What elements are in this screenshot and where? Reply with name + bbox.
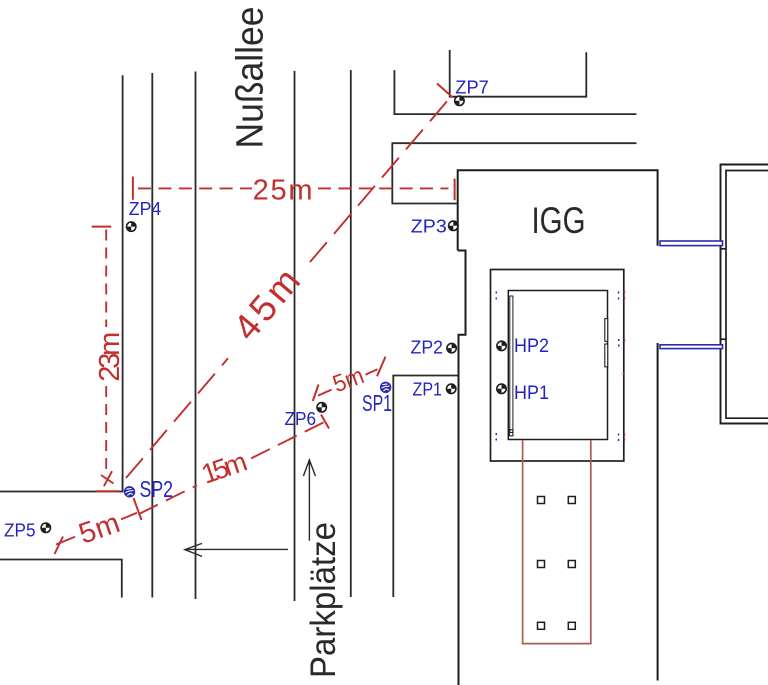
svg-text:ZP1: ZP1 bbox=[413, 378, 443, 399]
wall strip east upper bbox=[605, 319, 608, 342]
dimension 23m dashed line bbox=[105, 230, 107, 470]
arrow north bbox=[303, 460, 315, 541]
street line east mid bbox=[391, 143, 393, 204]
dimension 5m SP2-ZP5 dashed line bbox=[56, 513, 137, 545]
street line west 3 bbox=[195, 72, 197, 600]
wall strip west bbox=[510, 296, 513, 433]
svg-text:ZP6: ZP6 bbox=[285, 408, 317, 429]
point ZP7 bbox=[455, 96, 464, 105]
east building outer wall bbox=[721, 165, 768, 424]
svg-text:ZP5: ZP5 bbox=[4, 519, 36, 540]
east building opening rung 1 bbox=[721, 248, 727, 250]
dimension 5m tick at SP1 bbox=[377, 357, 386, 377]
svg-text:25m: 25m bbox=[253, 175, 313, 207]
street line east upper bbox=[393, 70, 395, 115]
pillar square 1 bbox=[538, 497, 545, 504]
survey micro dots courtyard top right red bbox=[624, 292, 626, 298]
point ZP5 bbox=[41, 523, 50, 532]
building IGG outline west bbox=[458, 170, 658, 250]
tower outline brown bbox=[523, 440, 591, 643]
bridge connector 1 blue bbox=[660, 241, 723, 246]
north building U outline bbox=[450, 50, 587, 97]
survey micro dots courtyard mid right blue bbox=[618, 340, 620, 346]
street line middle 5 bbox=[350, 70, 352, 597]
dimension 5m tick at ZP5 bbox=[55, 537, 64, 555]
svg-text:Nußallee: Nußallee bbox=[230, 7, 272, 149]
pillar square 2 bbox=[568, 497, 575, 504]
dimension 23m tick bottom cross bbox=[101, 475, 114, 484]
point ZP1 bbox=[447, 384, 456, 393]
street line middle 4 bbox=[294, 71, 296, 601]
point HP2 bbox=[497, 341, 506, 350]
street corner SP1 bbox=[393, 376, 458, 598]
dimension 5m tick at ZP6 bbox=[313, 385, 319, 402]
dimension 25m tick right bbox=[454, 179, 456, 201]
arrow west bbox=[185, 543, 288, 556]
point ZP6 bbox=[317, 403, 326, 412]
pillar square 4 bbox=[568, 561, 575, 568]
street horizontal to building bbox=[392, 203, 457, 205]
svg-text:HP2: HP2 bbox=[514, 335, 549, 357]
point SP2 bbox=[124, 487, 134, 497]
survey micro dots courtyard top right blue bbox=[618, 293, 620, 299]
survey micro dot right red low bbox=[623, 373, 625, 375]
red segment at SP2 corner bbox=[96, 490, 119, 492]
survey micro dot courtyard mid right red bbox=[624, 340, 626, 342]
street horizontal north bbox=[394, 113, 637, 115]
svg-text:ZP4: ZP4 bbox=[129, 198, 162, 219]
dimension 15m dashed line bbox=[139, 422, 325, 514]
svg-text:ZP3: ZP3 bbox=[411, 215, 447, 236]
point ZP3 bbox=[449, 221, 458, 230]
survey micro dots courtyard bottom left bbox=[496, 434, 498, 440]
svg-text:SP2: SP2 bbox=[140, 476, 174, 502]
svg-text:HP1: HP1 bbox=[514, 382, 549, 404]
dimension 25m tick left bbox=[132, 177, 134, 200]
pillar square 5 bbox=[538, 622, 545, 629]
svg-text:Parkplätze: Parkplätze bbox=[304, 522, 343, 678]
dimension 23m tick top bbox=[92, 226, 112, 228]
dimension 45m dashed line bbox=[126, 100, 449, 479]
street line west 1 bbox=[122, 75, 124, 491]
building IGG west step bbox=[458, 251, 466, 685]
survey micro dots courtyard bottom right blue bbox=[618, 435, 620, 441]
point SP1 bbox=[381, 382, 391, 392]
svg-text:ZP2: ZP2 bbox=[411, 336, 444, 357]
point ZP4 bbox=[127, 222, 136, 231]
street corner line SP2 west bbox=[0, 475, 123, 492]
wall strip east lower bbox=[605, 344, 608, 367]
dimension 15m tick at SP2 bbox=[134, 498, 142, 520]
svg-text:23m: 23m bbox=[94, 332, 126, 382]
courtyard inner rect bbox=[508, 291, 607, 440]
svg-text:ZP7: ZP7 bbox=[455, 77, 489, 98]
dimension 5m ZP6-SP1 dashed line bbox=[318, 369, 378, 395]
point ZP2 bbox=[447, 343, 456, 352]
dimension 45m tick at ZP7 bbox=[437, 84, 453, 98]
dimension 23m tick bottom bbox=[104, 471, 112, 486]
dimension 25m dashed line bbox=[138, 187, 449, 189]
door mark strip bottom bbox=[509, 430, 513, 436]
street line west 2 bbox=[151, 73, 153, 598]
east building inner wall bbox=[726, 171, 768, 419]
svg-text:SP1: SP1 bbox=[362, 390, 392, 416]
survey micro dots courtyard bottom right red bbox=[624, 435, 626, 440]
svg-text:IGG: IGG bbox=[532, 200, 586, 241]
building IGG east lower edge bbox=[657, 343, 659, 681]
courtyard outer rect bbox=[491, 270, 624, 462]
bridge connector 2 blue bbox=[660, 345, 723, 349]
pillar square 6 bbox=[568, 622, 575, 629]
east building opening rung 2 bbox=[721, 338, 727, 340]
survey micro dots courtyard top left bbox=[496, 293, 498, 299]
pillar square 3 bbox=[538, 561, 545, 568]
street corner line south west bbox=[0, 560, 122, 598]
street horizontal south bbox=[392, 142, 637, 144]
point HP1 bbox=[497, 384, 506, 393]
dimension 15m tick at ZP6 bbox=[321, 415, 329, 429]
